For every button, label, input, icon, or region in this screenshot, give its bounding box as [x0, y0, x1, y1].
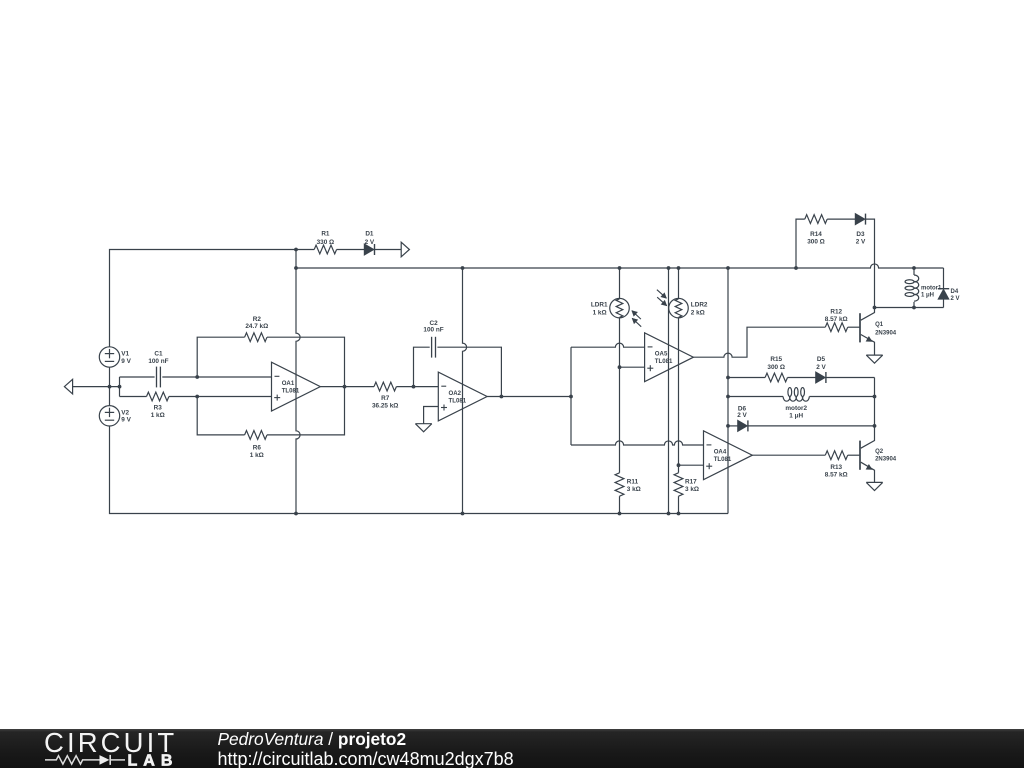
- wire R3 to OA1 non-inverting input: [169, 396, 272, 398]
- wire R6 feedback loop left: [197, 397, 244, 435]
- wire R2 feedback loop left: [197, 337, 244, 377]
- wire input branch stub: [119, 377, 121, 397]
- resistor R3: [147, 392, 169, 401]
- svg-text:C1: C1: [154, 351, 163, 358]
- wire R1 to D1: [337, 249, 365, 251]
- svg-text:OA5: OA5: [655, 351, 668, 358]
- svg-text:2 kΩ: 2 kΩ: [691, 310, 705, 317]
- svg-text:R15: R15: [770, 356, 782, 363]
- diode D6: [738, 420, 748, 431]
- wire rail to R15: [728, 377, 765, 379]
- wire vertical rail through OA2 with hop: [463, 268, 467, 514]
- wire stub to R3: [120, 396, 147, 398]
- wire right mid vertical to Q2 collector: [861, 378, 875, 449]
- wire R15 to D5: [788, 377, 816, 379]
- svg-text:OA2: OA2: [449, 390, 462, 397]
- svg-text:D3: D3: [856, 231, 865, 238]
- wire R14 to D3: [827, 218, 855, 220]
- svg-text:2 V: 2 V: [816, 364, 826, 371]
- resistor R2: [245, 333, 267, 342]
- svg-text:R13: R13: [830, 464, 842, 471]
- svg-text:2N3904: 2N3904: [875, 330, 897, 336]
- svg-text:R2: R2: [253, 316, 262, 323]
- svg-text:1 μH: 1 μH: [789, 412, 803, 419]
- wire R17 to ground bus: [678, 496, 680, 513]
- wire R2 feedback loop right: [267, 337, 345, 386]
- transistor Q1 base bar: [859, 313, 861, 342]
- wire OA1 output to R7: [320, 386, 374, 388]
- svg-text:1 μH: 1 μH: [921, 292, 934, 298]
- resistor R12: [825, 323, 847, 332]
- ground at Q2 emitter: [866, 481, 882, 483]
- diode D5: [816, 372, 826, 383]
- resistor R14: [805, 215, 827, 224]
- svg-text:Q1: Q1: [875, 322, 884, 328]
- svg-text:R11: R11: [627, 478, 639, 485]
- svg-text:100 nF: 100 nF: [423, 327, 443, 334]
- wire OA2 output branch vertical: [570, 347, 572, 445]
- wire LDR2 tap to OA4 non-inverting input: [679, 464, 704, 466]
- wire to OA5 inverting input with hop: [571, 343, 645, 347]
- svg-text:1 kΩ: 1 kΩ: [151, 412, 165, 419]
- LDR1 light arrows: [632, 311, 641, 319]
- svg-text:1 kΩ: 1 kΩ: [593, 310, 607, 317]
- svg-text:8.57 kΩ: 8.57 kΩ: [825, 316, 848, 323]
- svg-text:D5: D5: [817, 356, 826, 363]
- resistor R15: [765, 373, 787, 382]
- node IN left flag: [64, 379, 72, 394]
- svg-text:R14: R14: [810, 231, 822, 238]
- wire rail to motor2: [728, 396, 783, 398]
- resistor R17: [674, 473, 683, 496]
- resistor R11: [615, 473, 624, 496]
- capacitor C1: [156, 367, 158, 388]
- resistor R6: [245, 431, 267, 440]
- svg-text:V2: V2: [121, 409, 129, 416]
- svg-text:9 V: 9 V: [121, 358, 131, 365]
- ground at OA2 non-inverting input: [415, 423, 431, 425]
- wire Q1 emitter to ground: [861, 335, 875, 356]
- wire bus up to R14: [796, 219, 805, 268]
- wire input net from left flag to branch stub: [73, 386, 120, 388]
- svg-text:8.57 kΩ: 8.57 kΩ: [825, 472, 848, 479]
- svg-text:TL081: TL081: [714, 456, 732, 463]
- wire OA5 output to R12 with hop: [693, 327, 825, 357]
- ground at Q1 emitter: [866, 354, 882, 356]
- wire R13 to Q2 base: [848, 454, 860, 456]
- wire bus to motor1 top: [913, 268, 915, 275]
- wire LDR1 tap to OA5 non-inverting input: [620, 366, 645, 368]
- wire top supply bus with hop: [296, 264, 944, 268]
- wire OA2 non-inverting input to ground: [424, 407, 439, 424]
- wire D3 down to Q1 collector node: [866, 219, 875, 307]
- svg-text:LDR1: LDR1: [591, 302, 608, 309]
- wire R6 feedback loop right: [267, 387, 345, 435]
- inductor motor2: [783, 388, 809, 402]
- svg-text:LAB: LAB: [128, 753, 179, 768]
- svg-text:TL081: TL081: [449, 397, 467, 404]
- capacitor C2: [431, 337, 433, 358]
- wire R12 to Q1 base: [848, 326, 860, 328]
- wire stub to C1: [120, 376, 155, 378]
- wire to OA4 inverting input with hops: [571, 441, 704, 445]
- svg-text:9 V: 9 V: [121, 417, 131, 424]
- wire motor2 right: [809, 396, 874, 398]
- wire LDR2 bottom to R17: [678, 318, 680, 473]
- svg-text:motor2: motor2: [785, 405, 807, 412]
- wire D5 right: [826, 377, 874, 379]
- svg-text:R7: R7: [381, 395, 390, 402]
- op-amp OA2: [438, 372, 487, 421]
- wire D4 anode down: [943, 299, 945, 307]
- wire R7 to OA2 inverting input: [396, 386, 438, 388]
- svg-text:R12: R12: [830, 308, 842, 315]
- svg-text:D4: D4: [951, 289, 959, 295]
- transistor Q2 emitter arrow: [866, 465, 872, 470]
- wire C1 to OA1 inverting input: [162, 376, 271, 378]
- wire bus to LDR2 top: [678, 268, 680, 298]
- svg-text:300 Ω: 300 Ω: [807, 238, 825, 245]
- svg-text:24.7 kΩ: 24.7 kΩ: [245, 323, 268, 330]
- wire vertical rail between buses: [668, 268, 670, 514]
- wire D1 to output flag: [375, 249, 401, 251]
- svg-text:2 V: 2 V: [737, 412, 747, 419]
- svg-text:300 Ω: 300 Ω: [767, 364, 785, 371]
- svg-text:V1: V1: [121, 350, 129, 357]
- wire Q2 emitter to ground: [861, 462, 875, 482]
- wire bus to LDR1 top: [619, 268, 621, 298]
- wire rail to D6: [728, 425, 738, 427]
- transistor Q2 base bar: [859, 441, 861, 470]
- wire mid-right vertical rail: [727, 268, 729, 514]
- svg-text:36.25 kΩ: 36.25 kΩ: [372, 402, 398, 409]
- inductor motor1: [905, 275, 919, 301]
- resistor R13: [825, 451, 847, 460]
- diode D3: [855, 214, 865, 225]
- svg-text:R17: R17: [685, 478, 697, 485]
- wire between V1 and V2: [109, 367, 111, 405]
- svg-text:PedroVentura / projeto2: PedroVentura / projeto2: [218, 729, 407, 749]
- wire R11 to ground bus: [619, 496, 621, 513]
- resistor R7: [374, 382, 396, 391]
- svg-text:3 kΩ: 3 kΩ: [627, 486, 641, 493]
- svg-text:LDR2: LDR2: [691, 302, 708, 309]
- wire LDR1 bottom to R11: [619, 318, 621, 473]
- node output flag: [401, 242, 409, 257]
- svg-text:OA4: OA4: [714, 449, 727, 456]
- svg-text:OA1: OA1: [282, 380, 295, 387]
- wire Q1 collector node to motor1 and D4: [875, 307, 944, 309]
- svg-text:TL081: TL081: [655, 358, 673, 365]
- op-amp OA1: [272, 362, 321, 411]
- photoresistor LDR1: [610, 298, 630, 318]
- diode D1: [364, 244, 374, 255]
- svg-text:motor1: motor1: [921, 286, 942, 292]
- LDR2 light arrows: [657, 290, 667, 299]
- resistor R1: [314, 245, 336, 254]
- wire motor1 bottom: [913, 302, 915, 308]
- svg-text:1 kΩ: 1 kΩ: [250, 452, 264, 459]
- wire R7 output up to C2: [414, 347, 430, 386]
- svg-text:R3: R3: [154, 405, 163, 412]
- svg-text:100 nF: 100 nF: [148, 358, 168, 365]
- svg-text:330 Ω: 330 Ω: [317, 239, 335, 246]
- svg-text:2 V: 2 V: [951, 296, 960, 302]
- svg-text:http://circuitlab.com/cw48mu2d: http://circuitlab.com/cw48mu2dgx7b8: [218, 749, 514, 768]
- svg-text:2N3904: 2N3904: [875, 456, 897, 462]
- wire OA4 output to R13: [752, 454, 825, 456]
- wire V2 bottom to ground bus: [110, 426, 729, 513]
- op-amp OA5: [645, 333, 694, 382]
- wire main left vertical with hops: [296, 250, 300, 514]
- transistor Q1 emitter arrow: [866, 337, 872, 342]
- svg-text:3 kΩ: 3 kΩ: [685, 486, 699, 493]
- voltage source V1: [99, 347, 119, 367]
- svg-text:R6: R6: [253, 444, 262, 451]
- wire bus corner down to D4: [943, 268, 945, 288]
- wire V1 top up and across to R1: [110, 250, 315, 347]
- footer bar: [0, 729, 1024, 768]
- CircuitLab logo resistor-diode symbol: [45, 755, 125, 765]
- wire D6 right: [748, 425, 874, 427]
- diode D4: [938, 288, 949, 290]
- wire C2 to OA2 output feedback: [437, 347, 501, 396]
- op-amp OA4: [704, 431, 753, 480]
- voltage source V2: [99, 406, 119, 426]
- wire OA2 output: [487, 396, 571, 398]
- svg-text:Q2: Q2: [875, 449, 884, 455]
- photoresistor LDR2: [669, 298, 689, 318]
- svg-text:R1: R1: [321, 230, 330, 237]
- wire Q1 collector: [861, 308, 875, 321]
- svg-text:2 V: 2 V: [365, 239, 375, 246]
- svg-text:2 V: 2 V: [856, 238, 866, 245]
- svg-text:D1: D1: [365, 230, 374, 237]
- svg-text:TL081: TL081: [282, 388, 300, 395]
